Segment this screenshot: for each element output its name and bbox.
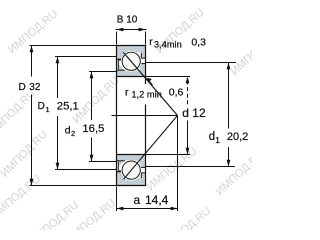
dimension a: extension lines [117,116,178,212]
svg-text:1,2 min: 1,2 min [131,90,162,100]
axis centerline [112,115,178,117]
outer ring upper section [117,46,146,60]
contact angle line lower [124,116,178,180]
watermark ИМПОД.RU mid-right [145,145,200,193]
svg-text:25,1: 25,1 [57,100,79,112]
bearing side face left [116,46,118,186]
r 1,2 min leader arrow [146,78,152,85]
svg-text:14,4: 14,4 [145,193,169,207]
svg-text:3,4min: 3,4min [154,39,182,49]
svg-text:ИМПОД.RU: ИМПОД.RU [0,128,50,179]
svg-text:D: D [19,82,26,93]
svg-text:d: d [209,131,215,143]
dimension d 12: vertical line dashed above label, solid below [186,77,190,155]
contact angle line upper [123,52,177,115]
dimension B: line and arrows [116,28,147,45]
svg-text:ИМПОД.RU: ИМПОД.RU [145,145,200,193]
dimension d2: vertical line with arrows [90,72,94,162]
svg-text:D: D [38,101,45,112]
svg-text:a: a [134,193,141,207]
dimension D 32: vertical line with arrows [30,46,34,186]
dimension D1: vertical line with arrows [56,57,60,170]
race groove upper (white ring around ball) [121,51,142,72]
watermark ИМПОД.RU center [71,74,122,125]
watermark ИМПОД.RU left-upper [0,87,38,138]
watermark ИМПОД.RU right-lower [214,148,267,198]
svg-text:0,3: 0,3 [191,37,206,49]
svg-text:32: 32 [29,82,41,93]
race groove lower (white ring around ball) [121,160,142,181]
svg-text:20,2: 20,2 [227,131,248,143]
dimension d 12: extension lines [146,77,191,155]
dimension a: line with arrows [117,207,178,211]
watermark ИМПОД.RU top-left [6,8,60,56]
inner ring upper section [117,64,146,77]
watermark ИМПОД.RU left-lower [0,128,50,179]
race and cage lines lower section [117,161,146,178]
watermark ИМПОД.RU top-right [154,6,207,56]
svg-text:r: r [149,36,153,48]
dimension d1: vertical line with arrows [227,63,231,167]
inner ring lower section [117,155,146,168]
dimension d1: extension lines [146,63,237,167]
watermark ИМПОД.RU bottom-edge [159,205,213,240]
svg-text:1: 1 [215,136,220,145]
outer ring lower section [117,172,146,186]
dimension D1: extension lines [55,57,117,170]
svg-text:d 12: d 12 [182,106,206,120]
svg-text:ИМПОД.RU: ИМПОД.RU [0,87,38,138]
watermark ИМПОД.RU right-upper [229,28,282,78]
bearing outline upper section [116,46,146,77]
svg-text:ИМПОД.RU: ИМПОД.RU [6,8,60,56]
svg-text:ИМПОД.RU: ИМПОД.RU [214,148,252,198]
ball lower section [122,161,140,179]
watermark ИМПОД.RU bottom-b [27,199,81,240]
svg-text:0,6: 0,6 [169,86,184,98]
svg-text:16,5: 16,5 [82,123,104,135]
svg-text:2: 2 [71,129,75,138]
svg-text:ИМПОД.RU: ИМПОД.RU [229,28,252,78]
race and cage lines upper section [117,53,146,70]
svg-text:ИМПОД.RU: ИМПОД.RU [27,199,81,230]
svg-text:1: 1 [46,105,50,114]
bearing side face right (gap for r label) [145,46,147,186]
watermark ИМПОД.RU bottom-a [0,173,43,221]
svg-text:B 10: B 10 [117,15,138,26]
svg-text:d: d [65,125,71,137]
ball upper section [122,52,140,70]
bearing outline lower section [116,155,146,186]
dimension d2: extension lines [89,72,117,162]
dimension D 32: extension lines [30,46,117,186]
svg-text:r: r [125,86,129,98]
watermark ИМПОД.RU bottom-c [64,197,118,240]
